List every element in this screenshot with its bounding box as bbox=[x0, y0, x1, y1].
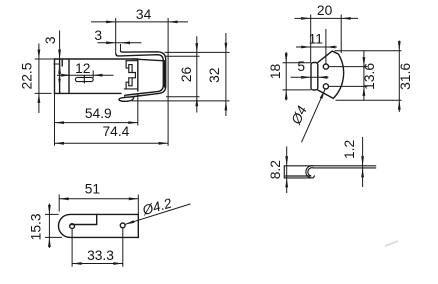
svg-text:34: 34 bbox=[136, 7, 152, 22]
dimension 3 (left) bbox=[43, 31, 61, 74]
claw end of lever plate bbox=[124, 60, 138, 91]
latch lever plate (side view) outline bbox=[55, 59, 138, 93]
dimension 22.5 (left) bbox=[20, 44, 55, 114]
svg-text:3: 3 bbox=[43, 36, 58, 44]
dimension 26 (right) bbox=[166, 36, 200, 112]
dimension 32 (right) bbox=[132, 33, 230, 116]
dimension 33.3 bbox=[72, 228, 123, 267]
dimension 8.2 bbox=[268, 147, 288, 194]
pivot bend lines on lever plate bbox=[60, 59, 69, 93]
svg-text:51: 51 bbox=[85, 182, 100, 197]
hole callout diameter 4 with leader bbox=[288, 90, 325, 143]
dimension 12 (slot) bbox=[57, 61, 114, 78]
dimension 54.9 bbox=[55, 93, 138, 145]
catch plate hook tab bbox=[311, 63, 318, 91]
faint smudge artifact bbox=[385, 241, 398, 246]
dimension 31.6 bbox=[335, 41, 414, 113]
svg-text:18: 18 bbox=[268, 64, 283, 80]
svg-text:15.3: 15.3 bbox=[28, 213, 43, 240]
wire bail far-side leg bbox=[132, 59, 164, 87]
svg-text:3: 3 bbox=[94, 28, 102, 43]
dimension 5 bbox=[291, 59, 329, 79]
dimension 51 bbox=[59, 182, 138, 215]
base plate left hole bbox=[70, 224, 75, 229]
adjustment slot in lever plate bbox=[75, 76, 93, 83]
svg-text:1.2: 1.2 bbox=[342, 140, 357, 159]
dimension 34 (top) bbox=[91, 7, 188, 146]
base plate (top view) outline bbox=[59, 214, 139, 237]
svg-text:26: 26 bbox=[179, 67, 194, 83]
svg-text:11: 11 bbox=[309, 32, 323, 47]
svg-text:5: 5 bbox=[297, 59, 305, 74]
wire bail inner contour bbox=[116, 54, 163, 96]
dimension 18 bbox=[268, 52, 311, 101]
dimension 20 bbox=[295, 3, 359, 63]
svg-text:8.2: 8.2 bbox=[268, 160, 283, 179]
svg-text:22.5: 22.5 bbox=[20, 62, 35, 89]
dimension 1.2 bbox=[342, 137, 364, 187]
dimension 13.6 bbox=[329, 51, 377, 101]
catch plate upper hole bbox=[323, 64, 328, 69]
dimension 74.4 bbox=[55, 124, 169, 145]
catch plate (top view) outline bbox=[318, 51, 344, 98]
svg-text:31.6: 31.6 bbox=[398, 63, 413, 90]
svg-text:74.4: 74.4 bbox=[102, 124, 129, 139]
rivet mark on pivot line bbox=[58, 79, 61, 86]
catch plate (side view) profile bbox=[284, 166, 376, 178]
svg-text:12: 12 bbox=[75, 61, 90, 76]
svg-text:54.9: 54.9 bbox=[85, 106, 112, 121]
svg-text:13.6: 13.6 bbox=[362, 63, 377, 90]
wire bail outer contour bbox=[119, 51, 166, 101]
svg-text:32: 32 bbox=[207, 68, 222, 83]
svg-text:20: 20 bbox=[317, 3, 333, 18]
dimension 3 (top) bbox=[94, 28, 141, 44]
dimension 15.3 bbox=[28, 204, 62, 249]
catch plate lower hole bbox=[323, 84, 328, 89]
svg-text:33.3: 33.3 bbox=[87, 248, 114, 263]
base plate right hole bbox=[120, 223, 125, 228]
dimension 11 bbox=[296, 29, 337, 64]
hole callout diameter 4.2 with leader bbox=[125, 195, 191, 224]
